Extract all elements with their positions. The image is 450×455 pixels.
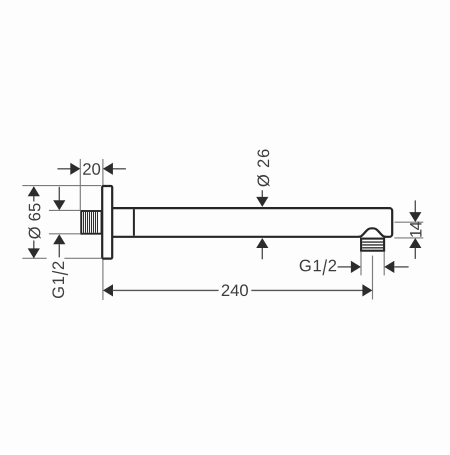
extension line: wall thread top (G1/2) — [49, 209, 80, 211]
shower arm tube body — [112, 208, 392, 237]
dimension G1/2 wall text — [52, 262, 68, 298]
dimension G1/2 outlet: lines and arrows — [338, 261, 409, 273]
extension line: tube axis (14 dim) — [394, 221, 423, 223]
dimension 20 text — [83, 163, 100, 175]
dimension Ø65: line and arrows — [28, 186, 40, 258]
outlet thread block G1/2 — [361, 239, 384, 251]
dimension 240: line and arrows — [103, 284, 372, 296]
dimension 240 text — [222, 284, 248, 296]
extension line: flange bottom (Ø65), two segments — [22, 257, 46, 259]
extension line: thread left edge (20 dim) — [79, 159, 81, 210]
dimension G1/2 outlet text — [300, 259, 336, 275]
dimension Ø26: line and arrows — [256, 190, 268, 259]
dimension G1/2 wall: line and arrows — [53, 187, 65, 258]
dimension 20: lines and arrows — [57, 163, 126, 175]
wall flange (escutcheon) — [102, 186, 112, 259]
dimension 14 text — [410, 222, 421, 237]
extension line: outlet thread left — [360, 252, 362, 275]
outlet center line (240 dim) — [372, 256, 374, 300]
extension line: flange face (20 / 240 dim) — [102, 159, 104, 300]
extension line: outlet thread right — [383, 252, 385, 275]
dimension 14: line and arrows — [409, 200, 421, 259]
dimension Ø26 text — [257, 149, 269, 186]
extension line: tube bottom (14 dim) — [394, 237, 423, 239]
extension line: wall thread bottom (G1/2) — [49, 233, 80, 235]
tube/connector divider line — [133, 209, 135, 236]
wall thread block — [81, 211, 101, 234]
dimension Ø65 text — [28, 203, 40, 238]
extension line: flange top (Ø65) — [22, 185, 101, 187]
